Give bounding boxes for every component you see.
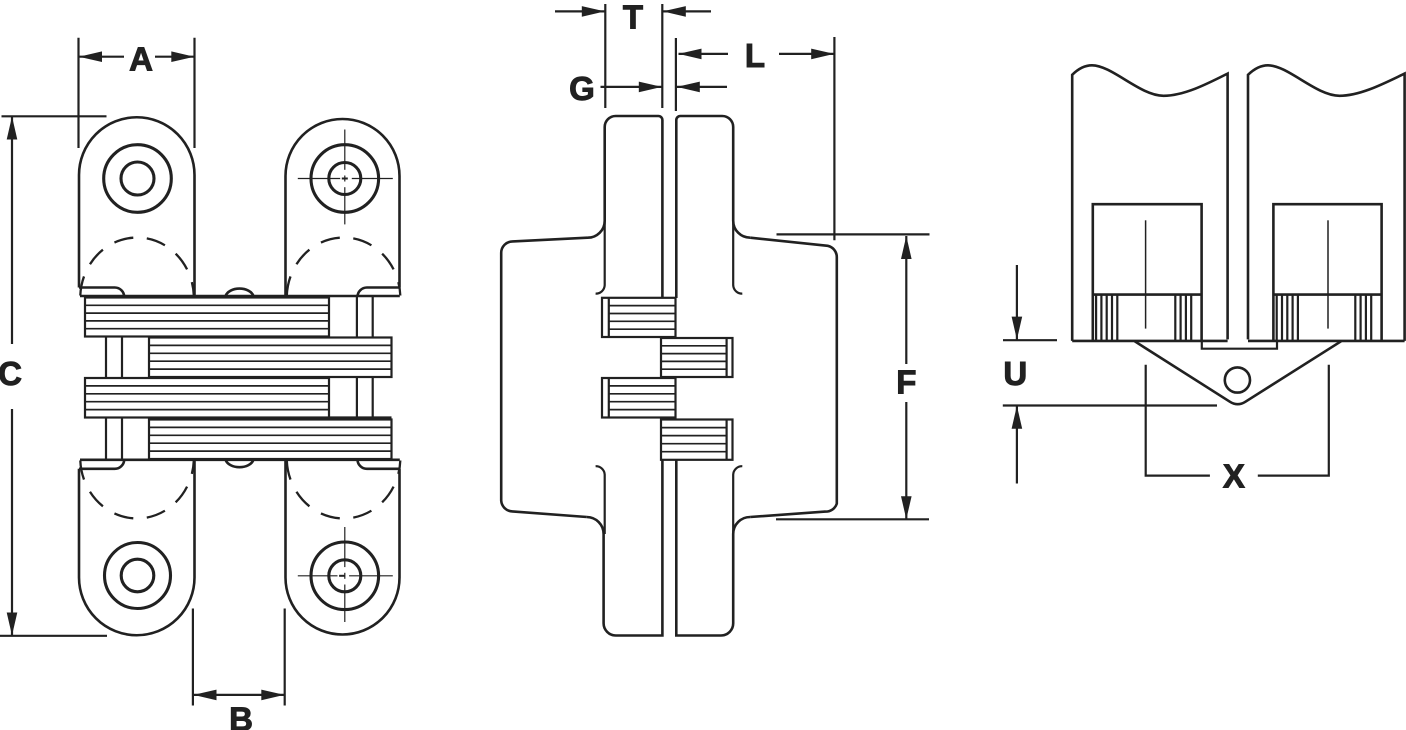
dimension C extension lines xyxy=(2,115,107,117)
side view: knuckle block 3 (left, hatched) xyxy=(602,378,676,418)
svg-text:C: C xyxy=(0,355,22,392)
front view: top-left tab dashed arc xyxy=(80,238,194,296)
side view: knuckle block 1 (left, hatched) xyxy=(602,298,676,337)
front view: top-left tab foot step xyxy=(79,288,124,297)
front view: bottom-right tab outline xyxy=(286,460,400,635)
side view: right leaf upper plate xyxy=(676,116,750,298)
dimension B extension lines xyxy=(192,609,194,706)
svg-text:U: U xyxy=(1003,355,1027,392)
end view: center link tongue xyxy=(1202,341,1277,348)
end view: right hinge mortise body xyxy=(1273,204,1381,341)
svg-text:B: B xyxy=(229,701,253,730)
front view: right link bars xyxy=(356,296,358,338)
side view: left leaf lower plate xyxy=(587,460,663,636)
front view: plate bottom edge xyxy=(80,458,400,461)
end view: V fold profile xyxy=(1135,341,1342,404)
dimension L extension lines xyxy=(675,38,677,111)
front view: top-right tab foot step xyxy=(358,288,400,297)
front view: top center dome xyxy=(226,289,254,296)
end view: left panel (broken top) xyxy=(1072,65,1227,341)
side view: left leaf upper plate xyxy=(588,116,663,298)
dimension T extension lines xyxy=(604,4,606,108)
front view: bottom-left tab outline xyxy=(79,460,195,635)
front view: bottom-left screw hole xyxy=(105,543,171,609)
svg-text:T: T xyxy=(623,0,643,35)
end view: right panel (broken top) xyxy=(1248,65,1405,341)
side view: right leaf hidden edge upper xyxy=(733,221,742,294)
side view: right leaf lower plate xyxy=(676,460,750,636)
dimension A arrows and label xyxy=(79,56,124,58)
side view: left leaf hidden edge upper xyxy=(596,221,605,294)
side view: right leaf hidden edge lower xyxy=(733,466,742,534)
dimension B arrows and label xyxy=(194,694,285,696)
front view: bottom-left tab dashed arc xyxy=(80,461,194,519)
dimension C arrows and label xyxy=(11,117,13,345)
front view: link band 1 (hatched) xyxy=(85,298,329,337)
front view: top-left screw hole xyxy=(104,145,172,213)
front view: link band 2 (hatched) xyxy=(149,338,392,378)
front view: left link bars xyxy=(105,337,107,378)
dimension L arrows and label xyxy=(679,53,729,55)
svg-text:F: F xyxy=(896,364,916,401)
svg-text:X: X xyxy=(1223,458,1245,495)
end view: pivot pin circle xyxy=(1225,367,1250,392)
front view: bottom-right tab foot step xyxy=(358,460,400,469)
front view: link band 4 (hatched) xyxy=(149,420,392,460)
dimension F arrows and label xyxy=(905,236,907,364)
svg-text:L: L xyxy=(745,37,765,74)
front view: bottom-right tab dashed arc xyxy=(287,461,401,519)
side view: knuckle block 4 (right, hatched) xyxy=(661,420,733,460)
dimension G arrows and label xyxy=(601,86,662,88)
front view: link band 3 (hatched) xyxy=(85,378,329,418)
front view: plate top edge xyxy=(80,295,400,298)
dimension T arrows and label xyxy=(555,10,605,12)
end view: left hinge mortise body xyxy=(1093,204,1202,341)
front view: top-right tab dashed arc xyxy=(287,238,401,296)
dimension X leader and label xyxy=(1146,365,1210,476)
front view: top-right screw hole with crosshair xyxy=(311,145,379,213)
dimension U arrows and label xyxy=(1016,265,1018,340)
dimension F extension lines xyxy=(777,233,930,235)
front view: top-left tab outline xyxy=(79,117,195,296)
front view: bottom center dome xyxy=(226,460,254,467)
front view: bottom-left tab foot step xyxy=(79,460,124,469)
side view: knuckle block 2 (right, hatched) xyxy=(661,338,733,377)
front view: top-right tab outline xyxy=(286,119,400,296)
side view: left leaf hidden edge lower xyxy=(596,466,605,534)
front view: bottom-right screw hole with crosshair xyxy=(311,542,379,610)
svg-text:A: A xyxy=(129,41,153,78)
side view: body right flange xyxy=(750,238,837,517)
dimension U extension lines xyxy=(1003,339,1057,341)
svg-text:G: G xyxy=(569,70,595,107)
side view: body left flange xyxy=(501,238,587,517)
dimension A extension lines xyxy=(77,38,79,148)
